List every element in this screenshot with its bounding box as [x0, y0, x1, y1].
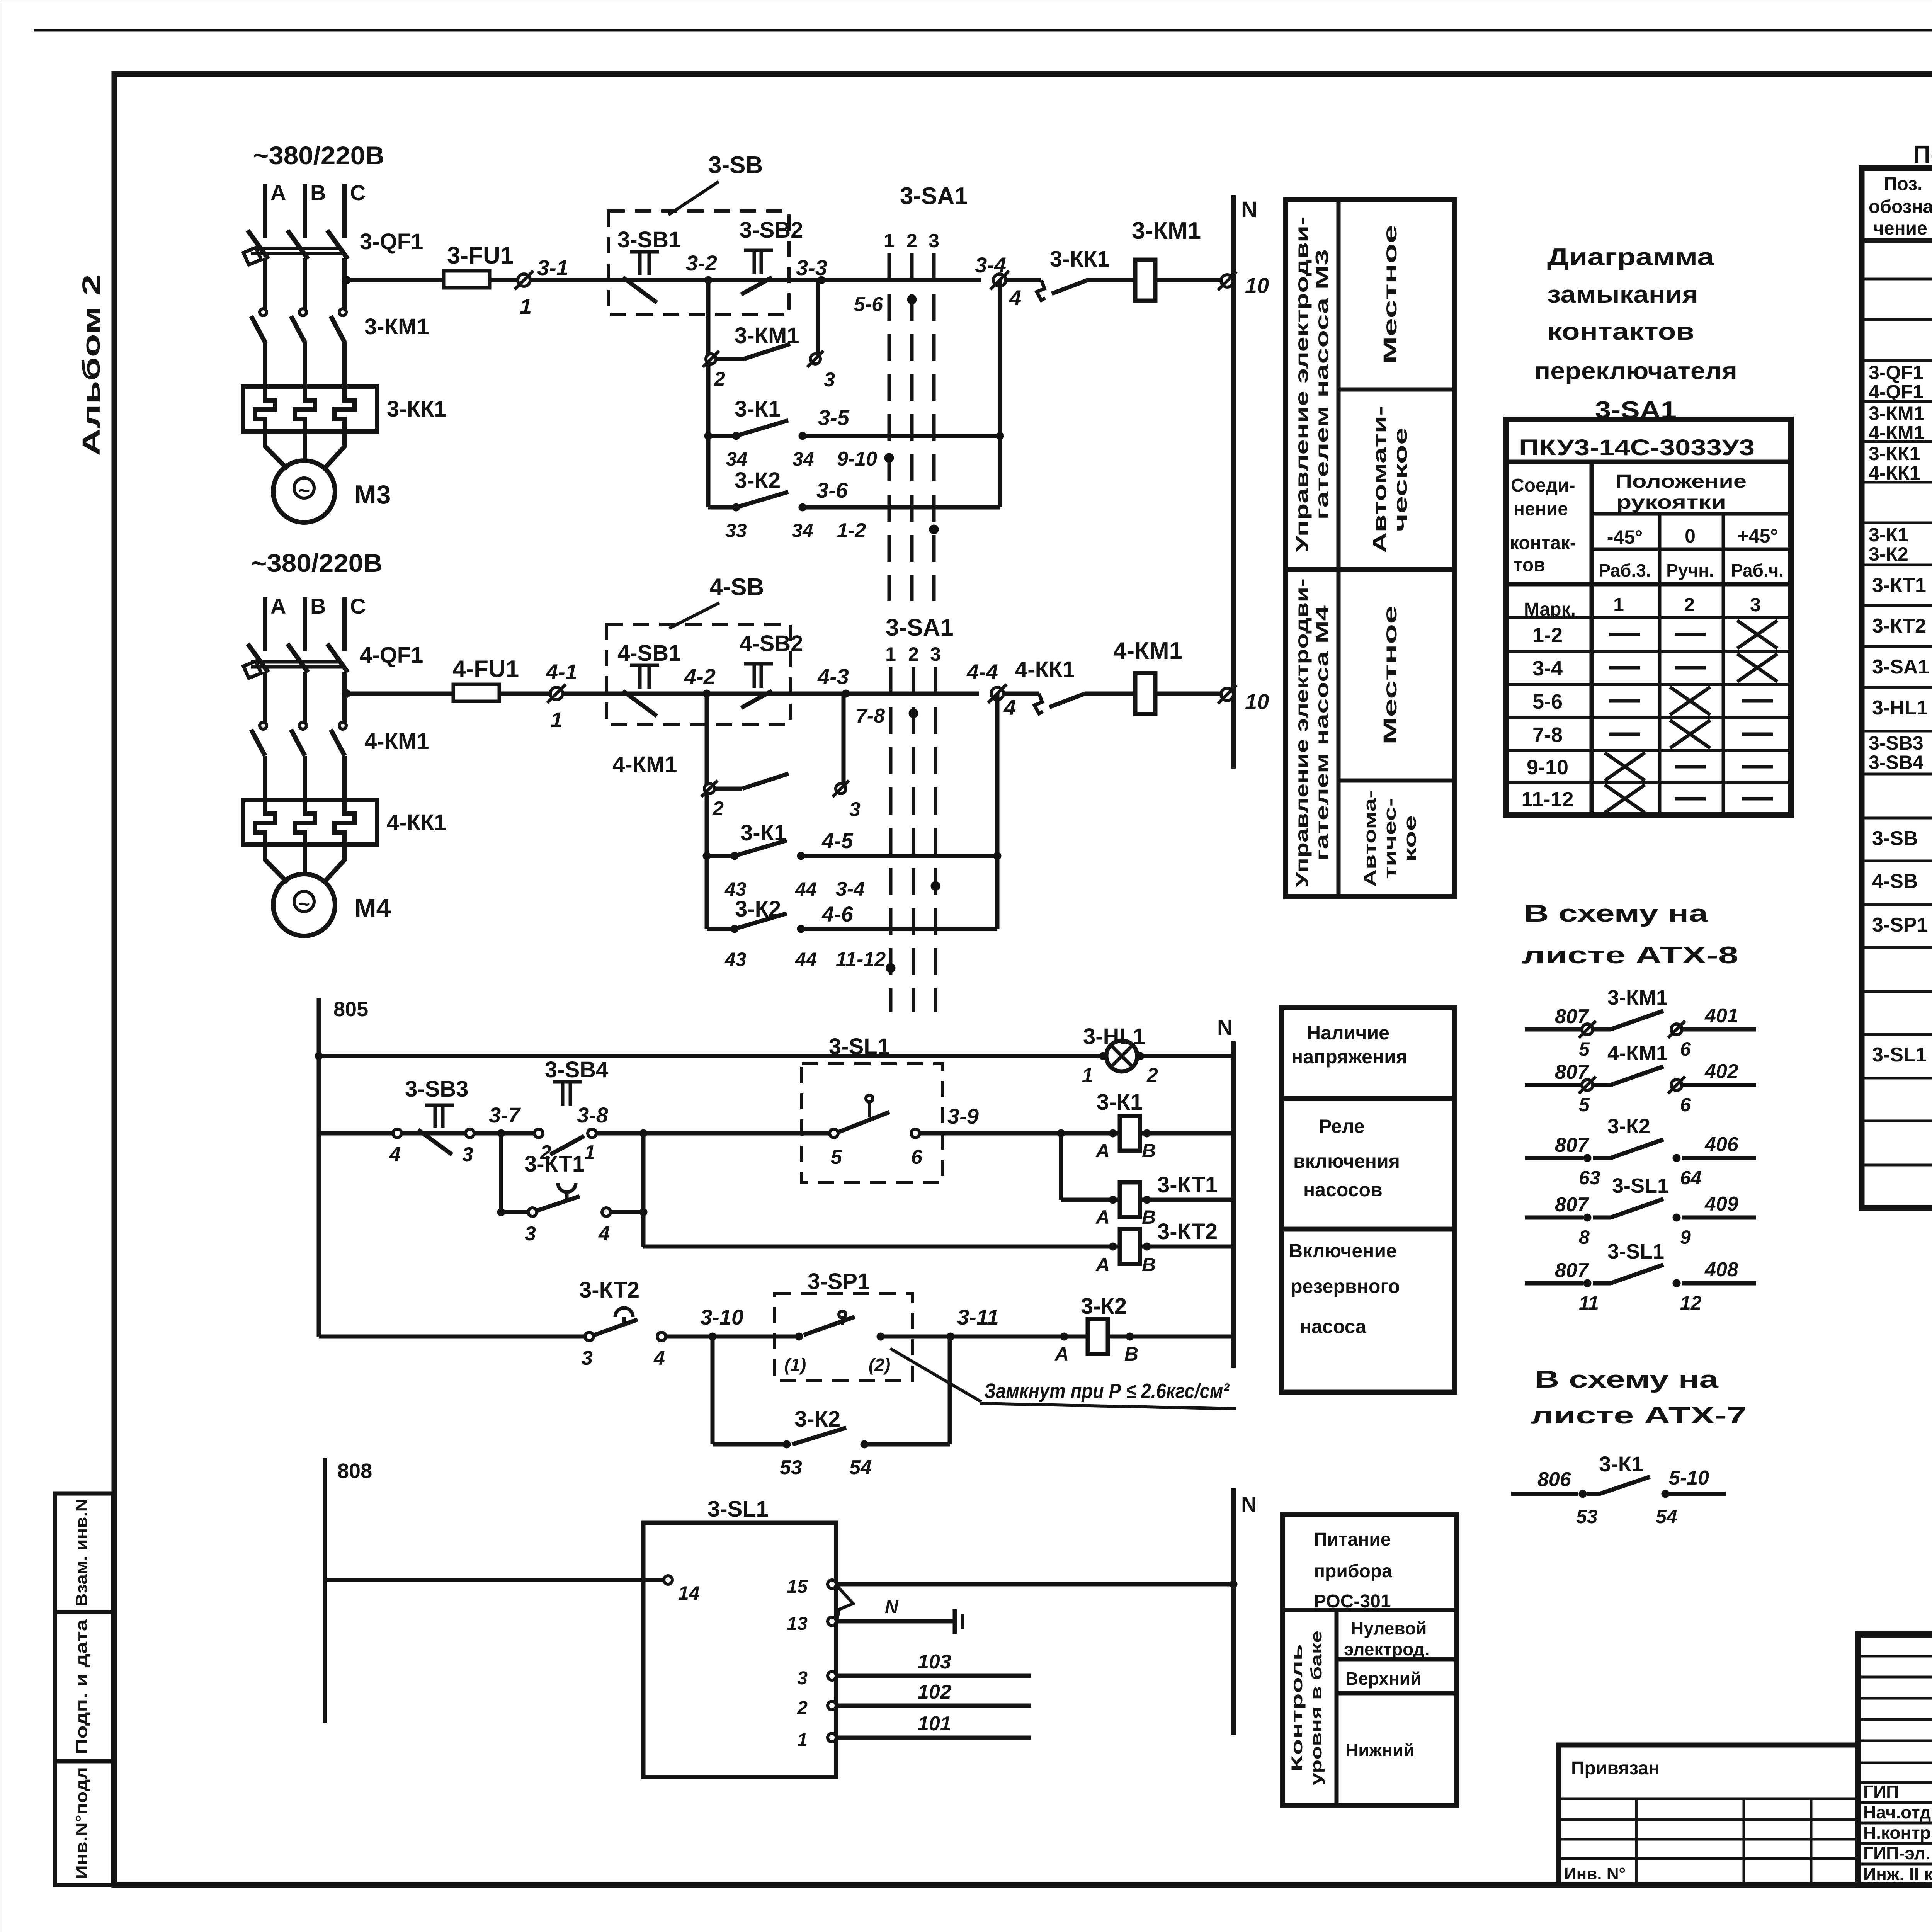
- svg-text:4-КК1: 4-КК1: [1869, 462, 1920, 484]
- wire pin2 / circuit 102: [836, 1704, 1031, 1708]
- time relay contact 3-KT2 (NC): [615, 1308, 633, 1317]
- svg-text:14: 14: [678, 1582, 700, 1604]
- contact node 4 (SB3): [393, 1129, 401, 1138]
- wire KT1 to corner: [611, 1210, 643, 1214]
- svg-text:Подп. и дата: Подп. и дата: [72, 1619, 90, 1754]
- svg-text:ГИП: ГИП: [1863, 1782, 1899, 1802]
- svg-text:53: 53: [1576, 1506, 1598, 1527]
- svg-text:3-3: 3-3: [796, 255, 827, 280]
- svg-text:54: 54: [849, 1456, 872, 1479]
- phase C lead (M3): [342, 184, 347, 238]
- svg-text:34: 34: [792, 520, 813, 541]
- pushbutton 3-SB1 (NC): [630, 250, 659, 254]
- coil terminal A (3-K2): [1060, 1333, 1068, 1340]
- svg-text:3-КК1: 3-КК1: [387, 396, 447, 422]
- right vertical node 4-4 to K2 row: [995, 694, 1000, 929]
- svg-text:3-КТ2: 3-КТ2: [1872, 615, 1926, 637]
- svg-text:~: ~: [298, 893, 310, 915]
- svg-text:3-КМ1: 3-КМ1: [1869, 403, 1924, 424]
- wire pin15 to N: [836, 1582, 1233, 1587]
- svg-text:гателем насоса М3: гателем насоса М3: [1312, 249, 1332, 520]
- svg-text:3-КМ1: 3-КМ1: [735, 323, 799, 348]
- contactor main contacts 3-KM1: [260, 309, 267, 316]
- svg-text:листе АТХ-8: листе АТХ-8: [1522, 942, 1738, 969]
- svg-text:М4: М4: [354, 893, 391, 923]
- svg-text:1-2: 1-2: [837, 519, 866, 542]
- svg-text:5: 5: [831, 1146, 842, 1168]
- wire pin1 / circuit 101: [836, 1736, 1031, 1740]
- svg-text:3-4: 3-4: [1532, 657, 1563, 680]
- svg-text:Диаграмма: Диаграмма: [1547, 244, 1714, 270]
- svg-text:прибора: прибора: [1314, 1561, 1392, 1582]
- coil terminal A (3-KT1): [1109, 1196, 1117, 1204]
- element list table grid+header: [1862, 168, 1932, 1208]
- wire 3-K1 coil to N: [1140, 1131, 1233, 1136]
- svg-text:102: 102: [918, 1681, 951, 1703]
- level contact 3-SL1 8-9 (to ATX-8): [1525, 1216, 1583, 1220]
- svg-text:3-КК1: 3-КК1: [1050, 247, 1110, 272]
- svg-text:~380/220В: ~380/220В: [251, 549, 383, 577]
- svg-text:4-SB1: 4-SB1: [617, 641, 681, 666]
- svg-text:103: 103: [918, 1651, 951, 1673]
- auxiliary contact 4-KM1: [704, 784, 714, 794]
- aux contact 4-KM1 (to ATX-8): [1525, 1083, 1583, 1087]
- svg-text:408: 408: [1704, 1259, 1738, 1281]
- wire to node 3-10: [666, 1335, 799, 1339]
- svg-text:10: 10: [1245, 689, 1269, 714]
- svg-text:807: 807: [1555, 1259, 1589, 1282]
- svg-text:3-КМ1: 3-КМ1: [1132, 218, 1201, 244]
- level sensor box 3-SL1: [643, 1523, 836, 1777]
- lamp terminal 1: [1099, 1052, 1107, 1060]
- wire 4-3 to switch: [846, 692, 979, 696]
- svg-text:2: 2: [797, 1698, 808, 1718]
- svg-text:В: В: [1142, 1254, 1156, 1276]
- svg-text:3: 3: [930, 643, 941, 665]
- svg-text:6: 6: [1680, 1038, 1691, 1060]
- svg-text:Ручн.: Ручн.: [1666, 560, 1714, 580]
- svg-text:Инв.N°подл: Инв.N°подл: [72, 1767, 90, 1879]
- svg-text:Верхний: Верхний: [1345, 1668, 1421, 1689]
- selector switch 3-SA1 (M4 section): [889, 667, 893, 1012]
- svg-text:3-SB3: 3-SB3: [1869, 732, 1923, 754]
- svg-text:3-К1: 3-К1: [1869, 524, 1908, 546]
- svg-text:Альбом 2: Альбом 2: [77, 274, 105, 456]
- svg-text:806: 806: [1537, 1468, 1571, 1491]
- function box: pump switching relays: [1282, 1099, 1454, 1229]
- function box: standby pump: [1282, 1229, 1454, 1392]
- pushbutton 3-SB4 (NO): [553, 1080, 582, 1084]
- svg-text:3-SL1: 3-SL1: [1612, 1174, 1669, 1197]
- svg-text:тичес-: тичес-: [1381, 798, 1400, 879]
- svg-text:4-5: 4-5: [821, 828, 854, 853]
- svg-text:нение: нение: [1514, 499, 1568, 519]
- contactor coil 4-KM1: [1135, 673, 1155, 714]
- phase B lead (M4): [303, 597, 307, 651]
- svg-text:15: 15: [787, 1577, 808, 1597]
- node 4-4: [991, 687, 1003, 700]
- svg-text:ГИП-эл.: ГИП-эл.: [1863, 1843, 1930, 1863]
- pin 14: [664, 1576, 672, 1584]
- svg-text:3: 3: [849, 798, 861, 821]
- svg-text:3-2: 3-2: [686, 251, 717, 275]
- level switch contact 3-SL1: [830, 1129, 838, 1138]
- branch to coil 3-KT1: [1059, 1133, 1063, 1200]
- svg-text:1: 1: [520, 294, 532, 318]
- svg-text:Марк.: Марк.: [1524, 599, 1576, 620]
- svg-text:3-К2: 3-К2: [794, 1406, 840, 1432]
- sheet top trim line: [34, 29, 1932, 32]
- svg-text:контак-: контак-: [1510, 533, 1576, 553]
- svg-text:3-КТ1: 3-КТ1: [1872, 574, 1926, 597]
- coil terminal A (3-KT2): [1109, 1243, 1117, 1250]
- time relay contact 3-KT1 (NC): [558, 1183, 576, 1192]
- wire to node 4-3: [707, 692, 846, 696]
- svg-text:54: 54: [1656, 1506, 1677, 1527]
- left stamp box Взам.инв.N: [55, 1493, 113, 1612]
- svg-text:4-КМ1: 4-КМ1: [364, 729, 429, 754]
- svg-text:3-11: 3-11: [957, 1305, 999, 1329]
- pin 1: [828, 1733, 836, 1742]
- svg-text:Контроль: Контроль: [1289, 1644, 1306, 1772]
- svg-text:Управление электродви-: Управление электродви-: [1292, 578, 1312, 888]
- svg-text:409: 409: [1704, 1193, 1738, 1215]
- svg-text:3-SB2: 3-SB2: [740, 218, 803, 243]
- svg-text:3: 3: [1750, 594, 1761, 616]
- svg-text:1: 1: [584, 1141, 595, 1164]
- pushbutton 4-SB1 (NC): [630, 664, 659, 667]
- svg-text:6: 6: [1680, 1094, 1691, 1116]
- svg-text:3-К2: 3-К2: [1869, 543, 1908, 565]
- svg-text:переключателя: переключателя: [1534, 358, 1737, 384]
- svg-text:101: 101: [918, 1713, 951, 1735]
- svg-text:Нач.отд.: Нач.отд.: [1863, 1802, 1932, 1822]
- svg-text:2: 2: [712, 798, 724, 820]
- contact node 1 (SB4): [588, 1129, 596, 1138]
- thermal contact 3-KK1 (NC): [1052, 280, 1087, 294]
- svg-text:3-SP1: 3-SP1: [1872, 914, 1928, 936]
- svg-text:(2): (2): [869, 1355, 890, 1375]
- svg-text:7-8: 7-8: [1532, 723, 1563, 747]
- svg-text:напряжения: напряжения: [1291, 1046, 1407, 1068]
- svg-text:34: 34: [793, 448, 814, 470]
- node 3-3: [818, 276, 825, 284]
- svg-text:9: 9: [1680, 1226, 1691, 1248]
- function box: control of pump M3: [1286, 200, 1454, 570]
- svg-text:М3: М3: [354, 480, 391, 509]
- svg-text:N: N: [1241, 197, 1257, 222]
- svg-text:3-SB4: 3-SB4: [545, 1057, 608, 1082]
- relay contact 3-K1 (M4 row): [703, 852, 711, 860]
- svg-text:-45°: -45°: [1607, 526, 1643, 548]
- svg-text:4-КМ1: 4-КМ1: [1607, 1042, 1668, 1065]
- svg-text:А: А: [1095, 1206, 1110, 1228]
- svg-text:3-SA1: 3-SA1: [900, 183, 968, 209]
- contactor coil 3-KM1: [1135, 260, 1155, 301]
- node 3-4: [993, 274, 1006, 286]
- svg-text:C: C: [350, 180, 366, 205]
- svg-text:3-9: 3-9: [947, 1104, 979, 1128]
- svg-text:ческое: ческое: [1391, 427, 1411, 532]
- svg-text:4-SB2: 4-SB2: [740, 631, 803, 656]
- svg-text:3-SL1: 3-SL1: [707, 1497, 769, 1522]
- svg-text:N: N: [1217, 1015, 1233, 1039]
- contact node 4 (KT2): [657, 1332, 666, 1341]
- pushbutton station box 4-SB: [607, 624, 790, 724]
- thermal relay heaters 3-KK1: [243, 386, 377, 431]
- svg-text:5-6: 5-6: [1532, 690, 1563, 713]
- wire to coil 3-KM1: [1087, 278, 1135, 282]
- signal lamp 3-HL1: [1106, 1041, 1137, 1071]
- function box: voltage presence: [1282, 1008, 1454, 1099]
- svg-text:В: В: [1142, 1206, 1156, 1228]
- svg-text:1: 1: [1082, 1064, 1093, 1087]
- svg-text:гателем насоса М4: гателем насоса М4: [1312, 605, 1332, 861]
- wire 3-3 to switch: [821, 278, 981, 282]
- svg-text:807: 807: [1555, 1194, 1589, 1216]
- vertical 3-8 branch: [641, 1133, 646, 1247]
- svg-text:3-QF1: 3-QF1: [360, 229, 423, 254]
- svg-text:резервного: резервного: [1291, 1276, 1400, 1297]
- svg-text:0: 0: [1685, 525, 1696, 547]
- function box: tank level control: [1335, 1610, 1339, 1805]
- svg-text:3-SB1: 3-SB1: [617, 227, 681, 252]
- svg-text:В схему на: В схему на: [1524, 900, 1708, 927]
- switch position table PKU3-14S-3033U3: [1506, 419, 1791, 815]
- circuit breaker 4-QF1: [251, 660, 342, 664]
- svg-text:807: 807: [1555, 1005, 1589, 1028]
- svg-text:4-КМ1: 4-КМ1: [612, 752, 677, 777]
- svg-text:3: 3: [824, 369, 835, 391]
- wire coil to N (M4): [1155, 692, 1227, 696]
- svg-text:807: 807: [1555, 1134, 1589, 1156]
- svg-text:Поз.: Поз.: [1884, 174, 1922, 194]
- svg-text:Включение: Включение: [1289, 1240, 1397, 1262]
- svg-text:A: A: [270, 180, 286, 205]
- contact node 3 (KT1): [501, 1210, 528, 1214]
- svg-text:обозна-: обозна-: [1869, 197, 1932, 217]
- pin 2: [828, 1701, 836, 1710]
- svg-text:Автома-: Автома-: [1361, 790, 1379, 887]
- coil terminal A (3-K1): [1109, 1129, 1117, 1137]
- neutral line N (middle): [1231, 1041, 1236, 1368]
- coil terminal B (3-K2): [1126, 1333, 1134, 1340]
- svg-text:4-SB: 4-SB: [1872, 870, 1918, 893]
- aux contact 3-KM1 (to ATX-8): [1525, 1027, 1583, 1032]
- contactor main contacts 4-KM1: [260, 722, 267, 729]
- pushbutton 4-SB2 (NO): [744, 662, 773, 666]
- branch up to SP1 row: [948, 1337, 952, 1444]
- svg-text:43: 43: [724, 949, 747, 970]
- svg-text:3-SL1: 3-SL1: [829, 1034, 890, 1059]
- node 3-2: [704, 276, 712, 284]
- svg-text:3-К1: 3-К1: [1097, 1090, 1143, 1115]
- svg-text:Раб.ч.: Раб.ч.: [1731, 560, 1784, 580]
- pressure switch box 3-SP1: [774, 1294, 913, 1380]
- wire to node 3-2: [623, 278, 708, 282]
- svg-text:включения: включения: [1293, 1150, 1400, 1172]
- svg-text:3-К1: 3-К1: [735, 396, 781, 422]
- relay coil 3-K2: [1088, 1319, 1108, 1354]
- phase A lead (M3): [263, 184, 267, 238]
- SA1 contact 7-8 closed mark: [909, 709, 918, 718]
- svg-text:3-SB: 3-SB: [708, 152, 763, 179]
- vertical from node 4-2: [705, 694, 709, 929]
- SA1 contact 1-2 closed mark: [929, 525, 939, 534]
- svg-text:А: А: [1095, 1140, 1110, 1162]
- svg-text:3-1: 3-1: [537, 255, 568, 280]
- svg-text:3-КТ2: 3-КТ2: [1157, 1219, 1218, 1244]
- SA1 contact 5-6 closed mark: [907, 295, 917, 304]
- node 1 / wire 4-1: [550, 687, 563, 700]
- svg-text:3-FU1: 3-FU1: [447, 242, 514, 269]
- svg-text:3-QF1: 3-QF1: [1869, 362, 1923, 383]
- svg-text:3-К2: 3-К2: [735, 896, 781, 922]
- relay contact 3-K2 (to ATX-8): [1525, 1156, 1583, 1160]
- pressure switch contact 3-SP1: [795, 1333, 803, 1340]
- branch 3-10 down to K2 contact: [711, 1337, 715, 1444]
- svg-text:3-КМ1: 3-КМ1: [364, 314, 429, 339]
- svg-text:10: 10: [1245, 273, 1269, 298]
- svg-text:Реле: Реле: [1319, 1116, 1365, 1137]
- wire 3-9 to relay coil: [920, 1131, 1120, 1136]
- svg-text:8: 8: [1579, 1226, 1590, 1248]
- svg-text:1-2: 1-2: [1532, 624, 1563, 647]
- wire 3-KT1 coil to N: [1140, 1198, 1233, 1202]
- svg-text:11-12: 11-12: [836, 948, 886, 971]
- svg-text:Раб.3.: Раб.3.: [1599, 560, 1651, 580]
- function box: POC-301 supply: [1282, 1515, 1457, 1805]
- coil terminal B (3-KT1): [1143, 1196, 1151, 1204]
- wire pin3 / circuit 103: [836, 1674, 1031, 1678]
- wire coil to N (M3): [1155, 278, 1227, 282]
- svg-text:РОС-301: РОС-301: [1314, 1591, 1391, 1612]
- svg-text:3-КТ2: 3-КТ2: [579, 1277, 639, 1303]
- svg-text:6: 6: [911, 1146, 923, 1168]
- motor M4: [273, 874, 335, 936]
- svg-text:4-КК1: 4-КК1: [1015, 657, 1075, 682]
- svg-text:402: 402: [1704, 1060, 1738, 1083]
- svg-text:ПКУ3-14С-3033У3: ПКУ3-14С-3033У3: [1519, 435, 1755, 460]
- svg-text:4-SB: 4-SB: [709, 574, 764, 600]
- contact node 3 (SB3): [466, 1129, 474, 1138]
- svg-text:Привязан: Привязан: [1571, 1758, 1660, 1779]
- svg-text:3-SB4: 3-SB4: [1869, 752, 1923, 773]
- svg-text:Перечень элементов принципиаль: Перечень элементов принципиальной схемы: [1913, 140, 1932, 168]
- right vertical node4 to K2 row: [998, 280, 1002, 507]
- svg-text:2: 2: [1684, 594, 1695, 616]
- svg-text:2: 2: [908, 643, 919, 665]
- svg-text:3: 3: [929, 230, 939, 252]
- row wire from feeder to SB3: [319, 1131, 393, 1136]
- svg-text:1: 1: [884, 230, 895, 252]
- wire QF1 to fuse (M3): [342, 276, 350, 284]
- svg-text:4-4: 4-4: [966, 660, 998, 684]
- pushbutton station box 3-SB: [609, 211, 789, 315]
- svg-text:+45°: +45°: [1738, 525, 1778, 547]
- svg-text:Управление электродви-: Управление электродви-: [1292, 216, 1312, 553]
- svg-text:4: 4: [598, 1223, 610, 1245]
- svg-text:4: 4: [653, 1347, 665, 1369]
- svg-text:электрод.: электрод.: [1344, 1639, 1430, 1659]
- lamp terminal 2: [1136, 1052, 1144, 1060]
- pushbutton 3-SB3 (NC): [425, 1104, 454, 1107]
- phase C lead (M4): [342, 597, 347, 651]
- wire to node 3-3: [708, 278, 821, 282]
- neutral line N (upper): [1231, 195, 1236, 769]
- svg-text:1: 1: [885, 643, 896, 665]
- svg-text:кое: кое: [1401, 815, 1420, 862]
- svg-text:~380/220В: ~380/220В: [253, 141, 384, 170]
- SA1 contact 9-10 closed mark: [884, 453, 894, 463]
- svg-text:А: А: [1095, 1254, 1110, 1276]
- svg-text:3-HL1: 3-HL1: [1083, 1024, 1145, 1049]
- svg-text:3-8: 3-8: [577, 1103, 609, 1127]
- svg-text:4-6: 4-6: [821, 902, 854, 926]
- auxiliary contact 3-KM1: [706, 354, 716, 364]
- svg-text:7-8: 7-8: [856, 705, 885, 727]
- pin 15: [828, 1580, 836, 1588]
- motor leads M3: [265, 431, 287, 469]
- relay coil 3-K1: [1120, 1116, 1140, 1151]
- svg-text:Наличие: Наличие: [1307, 1022, 1389, 1044]
- svg-text:4: 4: [389, 1143, 401, 1166]
- wire KT2 coil row: [643, 1245, 1120, 1249]
- relay contact 3-K2 (M3 row): [732, 503, 740, 511]
- svg-text:А: А: [1054, 1343, 1069, 1365]
- contact node 4 (KT1): [602, 1208, 611, 1216]
- wire pin13 to earth: [836, 1619, 955, 1624]
- svg-text:Соеди-: Соеди-: [1511, 475, 1575, 496]
- svg-text:3-SL1: 3-SL1: [1872, 1044, 1927, 1066]
- thermal relay heaters 4-KK1: [243, 800, 377, 845]
- node 4-3: [842, 690, 850, 697]
- svg-text:5: 5: [1579, 1038, 1590, 1060]
- svg-text:замыкания: замыкания: [1547, 281, 1698, 308]
- svg-text:4-1: 4-1: [546, 660, 577, 684]
- svg-text:тов: тов: [1514, 555, 1545, 575]
- svg-text:13: 13: [787, 1614, 808, 1634]
- wire QF1 to fuse (M4): [342, 689, 350, 698]
- svg-text:3-SA1: 3-SA1: [886, 614, 954, 641]
- wire 3-K2 coil to N: [1108, 1335, 1233, 1339]
- svg-text:4-2: 4-2: [684, 664, 716, 689]
- svg-text:4-QF1: 4-QF1: [1869, 381, 1923, 403]
- node 10 (M3): [1221, 275, 1233, 287]
- svg-text:~: ~: [298, 480, 310, 502]
- svg-text:3-SB: 3-SB: [1872, 827, 1918, 850]
- svg-text:C: C: [350, 594, 366, 618]
- svg-text:Инж. II к.: Инж. II к.: [1863, 1864, 1932, 1884]
- relay contact 3-K2 (M4 row): [731, 925, 738, 933]
- svg-text:9-10: 9-10: [1527, 756, 1568, 779]
- svg-text:3-К1: 3-К1: [1599, 1452, 1643, 1476]
- wire 3-11 to coil 3-K2: [881, 1335, 1088, 1339]
- svg-text:3-SP1: 3-SP1: [808, 1269, 870, 1294]
- svg-text:Местное: Местное: [1380, 605, 1401, 745]
- svg-text:4-КК1: 4-КК1: [387, 810, 447, 835]
- svg-text:807: 807: [1555, 1061, 1589, 1083]
- svg-text:44: 44: [795, 949, 817, 970]
- left stamp box Инв.N подл: [55, 1761, 113, 1885]
- svg-text:34: 34: [726, 448, 748, 470]
- svg-text:1: 1: [551, 707, 563, 732]
- svg-text:Питание: Питание: [1314, 1529, 1391, 1550]
- selector switch 3-SA1 (M3 section): [888, 253, 891, 601]
- svg-text:3: 3: [525, 1223, 536, 1245]
- svg-text:контактов: контактов: [1547, 318, 1694, 345]
- svg-text:4-КМ1: 4-КМ1: [1113, 638, 1182, 664]
